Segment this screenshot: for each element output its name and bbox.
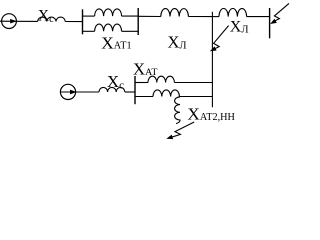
wire Xс to node bar xyxy=(65,21,82,23)
wire source G2 output xyxy=(60,91,99,93)
short-circuit arrow at node K1 xyxy=(212,26,229,51)
wire Xс to node bar (bottom block) xyxy=(125,91,135,93)
inductor XЛ (line, first) xyxy=(161,9,189,17)
wire top branch XАТ right to node K2 line xyxy=(174,82,212,84)
svg-text:XАТ: XАТ xyxy=(133,60,157,79)
source G2 (bottom EMF source) xyxy=(60,84,75,99)
inductor XАТ upper branch xyxy=(148,76,174,82)
inductor XАТ1 lower branch xyxy=(95,24,122,31)
node bar (receiving end busbar) xyxy=(269,8,271,38)
source G1 (top EMF source) xyxy=(2,14,17,29)
node K1 vertical line (junction to lower network) xyxy=(211,12,213,108)
wire source G1 output xyxy=(0,20,38,22)
svg-text:XАТ2,НН: XАТ2,НН xyxy=(187,105,235,124)
wire top branch АТ1 right xyxy=(122,15,139,17)
inductor Xс (system reactance, bottom) xyxy=(99,87,125,92)
inductor XЛ (line, second) xyxy=(219,9,247,17)
svg-text:Xс: Xс xyxy=(38,8,54,25)
node bar (left bar of XАТ1 parallel block) xyxy=(82,9,84,34)
wire bottom branch xyxy=(135,96,153,98)
short-circuit arrow at end busbar xyxy=(272,3,289,22)
wire bottom branch АТ1 right xyxy=(122,30,139,32)
wire bottom branch АТ1 xyxy=(83,30,95,32)
inductor XАТ2,НН (tertiary winding, vertical coil) xyxy=(175,97,180,124)
wire XЛ1 to node K1 xyxy=(188,16,212,18)
svg-text:Xс: Xс xyxy=(107,72,124,91)
inductor XАТ1 upper branch xyxy=(95,9,122,16)
wire to line inductor XЛ1 xyxy=(138,15,161,17)
wire node K1 to XЛ2 xyxy=(212,16,219,18)
wire XЛ2 to end bar xyxy=(247,16,270,18)
arrowhead of source G1 xyxy=(10,19,16,24)
svg-text:XАТ1: XАТ1 xyxy=(101,33,131,52)
wire bottom branch right to node K2 line xyxy=(179,96,212,98)
wire top branch XАТ xyxy=(135,82,148,84)
arrowhead of source G2 xyxy=(70,90,77,95)
inductor Xс (system reactance, top) xyxy=(38,17,66,21)
short-circuit arrow at XАТ2,НН terminal xyxy=(172,122,195,137)
svg-text:XЛ: XЛ xyxy=(230,19,249,36)
svg-text:XЛ: XЛ xyxy=(168,32,187,51)
node bar (right bar of XАТ1 parallel block) xyxy=(137,8,139,35)
node bar (left bar of bottom block) xyxy=(134,76,136,104)
inductor lower branch (АТ2 series winding) xyxy=(153,90,179,97)
wire top branch АТ1 xyxy=(83,15,95,17)
